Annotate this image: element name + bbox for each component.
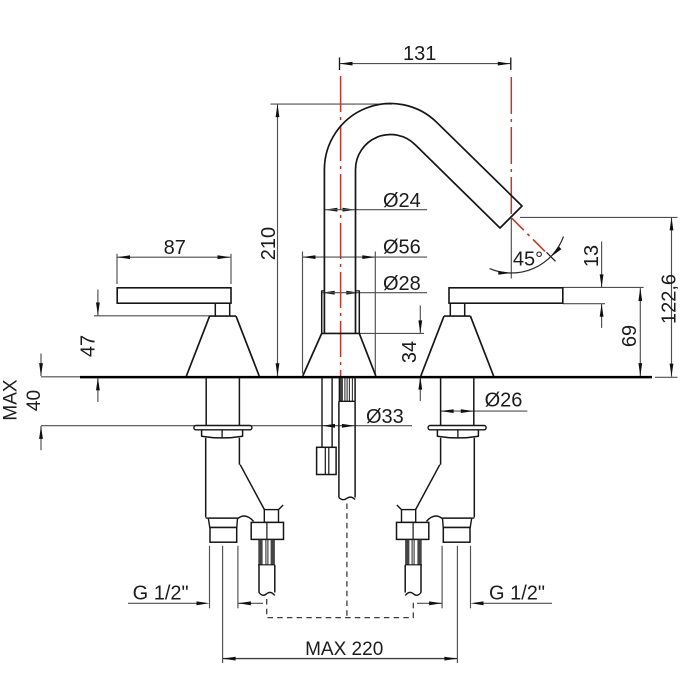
svg-text:Ø56: Ø56 <box>383 237 421 259</box>
svg-text:MAX 220: MAX 220 <box>305 639 383 660</box>
svg-text:210: 210 <box>258 227 280 260</box>
svg-text:G 1/2": G 1/2" <box>133 583 189 605</box>
svg-text:G 1/2": G 1/2" <box>489 583 545 605</box>
svg-text:Ø24: Ø24 <box>383 190 421 212</box>
svg-text:87: 87 <box>164 237 186 259</box>
svg-text:131: 131 <box>403 43 436 65</box>
svg-text:Ø33: Ø33 <box>366 406 404 428</box>
svg-text:Ø26: Ø26 <box>485 390 523 412</box>
svg-text:47: 47 <box>78 335 100 357</box>
svg-text:13: 13 <box>581 245 603 267</box>
svg-text:34: 34 <box>399 341 421 363</box>
svg-text:69: 69 <box>619 325 641 347</box>
svg-text:40: 40 <box>24 390 45 411</box>
svg-text:MAX: MAX <box>1 379 22 421</box>
svg-text:Ø28: Ø28 <box>383 273 421 295</box>
svg-text:45°: 45° <box>513 249 543 271</box>
svg-text:122,6: 122,6 <box>659 274 681 324</box>
